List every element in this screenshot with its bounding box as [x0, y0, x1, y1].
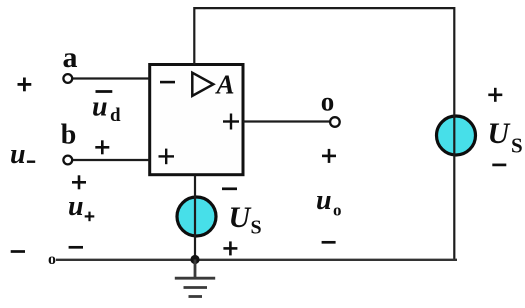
wire: non-inverting input b to op-amp	[70, 159, 150, 161]
label: + of uo	[322, 149, 336, 163]
voltage source US1 (bottom) circle	[177, 197, 216, 236]
svg-text:u: u	[10, 139, 26, 170]
svg-text:S: S	[251, 217, 262, 239]
label: - of US1 (above source)	[222, 187, 237, 190]
label: - of US2	[492, 164, 506, 167]
svg-text:U: U	[488, 117, 511, 150]
svg-text:u: u	[68, 191, 84, 222]
label: - of ud (above ud)	[96, 90, 113, 93]
label: + of US1 (below source)	[223, 241, 237, 255]
svg-text:S: S	[511, 134, 523, 158]
op-amp output + sign	[223, 114, 239, 130]
wire: inverting input a to op-amp	[70, 77, 150, 79]
svg-text:o: o	[48, 251, 56, 268]
op-amp U1 body	[150, 65, 243, 175]
terminal o	[330, 117, 340, 127]
terminal b	[63, 156, 72, 165]
label: + of US2 (right top)	[488, 88, 502, 102]
label: - of u- (far left bottom)	[11, 250, 25, 253]
label: + of u+ (below terminal b)	[72, 175, 86, 189]
wire: op-amp output to terminal o	[243, 120, 332, 122]
svg-text:u: u	[92, 92, 108, 123]
svg-text:A: A	[215, 70, 235, 100]
svg-text:d: d	[110, 105, 121, 126]
wire: bottom common rail	[56, 259, 457, 261]
op-amp gain triangle	[192, 73, 213, 96]
label: + of ud (above wire b)	[95, 140, 109, 154]
svg-text:b: b	[61, 120, 77, 151]
svg-text:a: a	[63, 41, 78, 74]
junction node (ground tie)	[190, 255, 199, 264]
wire: op-amp bottom through source US1	[194, 176, 196, 261]
op-amp inverting input sign	[160, 81, 175, 84]
op-amp non-inverting input sign	[159, 149, 175, 165]
label: - of uo	[322, 241, 336, 244]
wire: feedback loop top and right side	[194, 8, 454, 259]
voltage source US2 (right) circle	[437, 116, 476, 155]
svg-text:o: o	[333, 201, 342, 220]
label: - of u+ (above bottom rail)	[69, 246, 83, 249]
terminal a	[63, 74, 72, 83]
svg-text:U: U	[229, 201, 252, 234]
label: + of u- (far left)	[18, 78, 32, 92]
svg-text:o: o	[321, 87, 335, 117]
svg-text:u: u	[316, 185, 332, 216]
ground symbol	[175, 260, 215, 297]
